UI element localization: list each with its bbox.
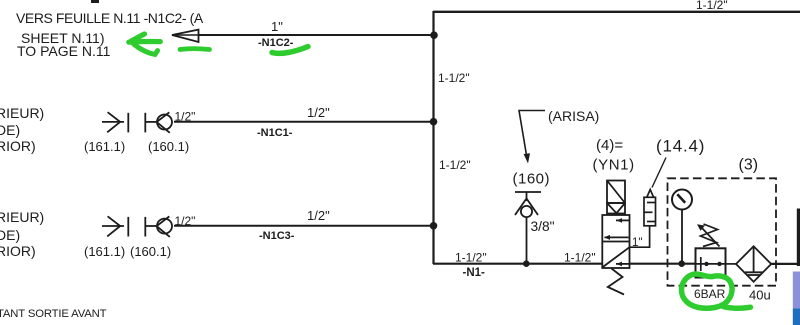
svg-text:40u: 40u xyxy=(749,288,771,303)
junction node at check valve foot xyxy=(523,260,530,267)
svg-text:(161.1): (161.1) xyxy=(84,139,125,154)
svg-text:DE): DE) xyxy=(0,227,20,243)
svg-text:RIOR): RIOR) xyxy=(0,138,36,154)
solenoid valve YN1 xyxy=(602,181,629,269)
svg-text:(3): (3) xyxy=(739,157,759,174)
svg-text:TO PAGE N.11: TO PAGE N.11 xyxy=(17,43,111,59)
top horizontal header wire xyxy=(433,11,800,13)
wire filter to right edge xyxy=(771,263,798,265)
leader line to (14.4) xyxy=(652,158,666,188)
main vertical header wire xyxy=(432,11,434,264)
wire net -N1C2- xyxy=(173,34,433,36)
svg-text:-N1-: -N1- xyxy=(463,267,486,279)
svg-text:1-1/2": 1-1/2" xyxy=(438,71,470,85)
row 2 left margin text (cut off) xyxy=(0,105,44,154)
row 3 left margin text (cut off) xyxy=(0,209,44,259)
wire valve port 1" to pilot vent 14.4 xyxy=(630,226,650,247)
wire regulator to filter xyxy=(726,263,737,265)
wire net -N1- (bottom bus, left part) xyxy=(433,263,603,265)
svg-text:6BAR: 6BAR xyxy=(694,287,726,301)
right edge component bar (cut off) xyxy=(797,209,800,267)
leader line to (ARISA) xyxy=(519,111,545,164)
svg-text:-N1C2-: -N1C2- xyxy=(258,37,294,49)
off-page arrow symbol xyxy=(172,30,199,42)
svg-text:-N1C1-: -N1C1- xyxy=(257,127,293,139)
wire check valve 160 to -N1- xyxy=(526,217,528,263)
junction node at -N1C3- xyxy=(430,222,438,230)
svg-text:DE): DE) xyxy=(0,122,20,138)
svg-text:(160): (160) xyxy=(513,171,551,188)
dashed enclosure box 3 xyxy=(668,178,777,285)
right edge blue UI bar xyxy=(793,309,800,325)
junction node at -N1C2- xyxy=(430,31,438,39)
svg-text:TANT SORTIE AVANT: TANT SORTIE AVANT xyxy=(0,308,107,320)
svg-text:(14.4): (14.4) xyxy=(656,137,705,156)
quick coupling plug 161.1 (row 3) xyxy=(102,216,128,236)
quick coupling plug 161.1 (row 2) xyxy=(102,112,128,132)
svg-text:(ARISA): (ARISA) xyxy=(548,108,599,124)
green hand-drawn arrow annotation xyxy=(129,34,161,54)
green stroke annotation under -N1C2- xyxy=(272,47,308,54)
svg-text:(YN1): (YN1) xyxy=(593,157,635,174)
svg-text:1-1/2": 1-1/2" xyxy=(439,158,471,172)
svg-text:RIOR): RIOR) xyxy=(0,243,36,259)
pressure regulator (6BAR) xyxy=(696,224,726,278)
return spring of valve YN1 xyxy=(608,269,624,295)
svg-text:(4)=: (4)= xyxy=(596,137,623,154)
junction node at gauge foot xyxy=(678,260,685,267)
wire net -N1C3- xyxy=(174,225,433,227)
cut-off character at top edge xyxy=(91,0,99,3)
svg-text:1-1/2": 1-1/2" xyxy=(696,0,728,12)
wire net -N1C1- xyxy=(174,121,433,123)
svg-text:1": 1" xyxy=(271,19,283,34)
green dash annotation under arrow xyxy=(180,46,210,52)
right edge periwinkle UI bar xyxy=(793,272,800,309)
green hand-drawn circle around 6BAR xyxy=(681,274,750,308)
svg-text:1-1/2": 1-1/2" xyxy=(455,251,487,265)
wire gauge stem xyxy=(681,210,683,264)
wire valve YN1 to regulator xyxy=(630,263,696,265)
svg-text:1": 1" xyxy=(632,237,642,249)
svg-text:1/2": 1/2" xyxy=(307,208,330,223)
pilot vent component 14.4 xyxy=(644,190,656,226)
svg-text:1-1/2": 1-1/2" xyxy=(564,251,596,265)
check valve 160 xyxy=(515,192,541,217)
svg-text:1/2": 1/2" xyxy=(307,105,330,120)
svg-text:-N1C3-: -N1C3- xyxy=(259,230,295,242)
svg-text:VERS FEUILLE N.11 -N1C2- (A: VERS FEUILLE N.11 -N1C2- (A xyxy=(16,10,204,26)
svg-text:RIEUR): RIEUR) xyxy=(0,105,44,121)
svg-text:3/8": 3/8" xyxy=(531,219,555,234)
junction node at -N1C1- xyxy=(430,118,438,126)
air filter 40u xyxy=(736,246,771,281)
svg-text:(160.1): (160.1) xyxy=(148,139,189,154)
svg-text:(160.1): (160.1) xyxy=(130,244,171,259)
quick coupling socket with check valve 160.1 (row 3) xyxy=(145,216,172,237)
svg-text:(161.1): (161.1) xyxy=(84,244,125,259)
svg-text:RIEUR): RIEUR) xyxy=(0,209,44,225)
pressure gauge xyxy=(672,190,692,210)
quick coupling socket with check valve 160.1 (row 2) xyxy=(145,112,172,133)
off-page reference text block (VERS FEUILLE / SHEET / TO PAGE) xyxy=(16,10,204,59)
